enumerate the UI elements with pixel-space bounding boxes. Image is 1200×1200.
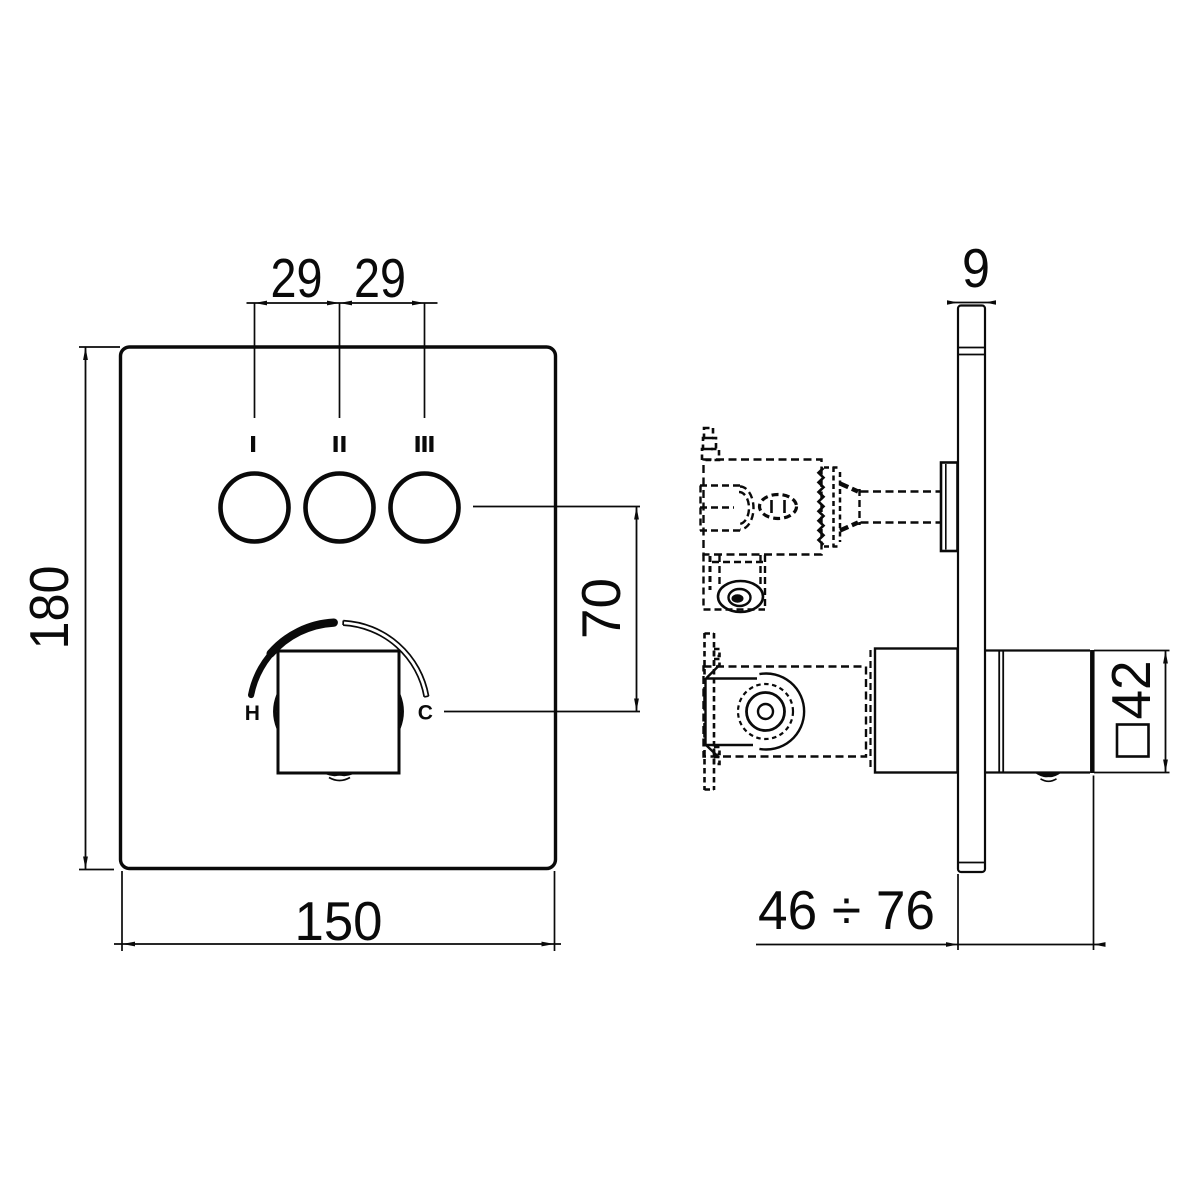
numeral I xyxy=(251,436,255,452)
wall plate side profile xyxy=(958,306,985,873)
dimension 29-29: extension lines xyxy=(254,303,256,418)
dimension 70: leader from knob C xyxy=(444,711,640,713)
upper supply pipe stub (dashed) xyxy=(702,428,719,460)
lower housing box (solid) xyxy=(875,649,958,773)
dimension 180: extension lines xyxy=(79,346,120,348)
dimension 180: arrows xyxy=(83,347,88,360)
lower cartridge nut circle xyxy=(747,693,785,731)
lower cartridge outer circle xyxy=(759,674,804,750)
temperature knob side (right of plate) xyxy=(986,650,1093,773)
wall plate seam lines xyxy=(958,347,985,349)
wall line (dashed) xyxy=(869,650,871,771)
lower cartridge dashed circle xyxy=(738,684,793,739)
dimension 70: arrows xyxy=(634,507,639,520)
cold arc (thin double right) xyxy=(343,621,428,697)
svg-text:H: H xyxy=(245,702,260,725)
hot arc (thick left) xyxy=(251,623,334,695)
dimension 70: leader from circle 3 xyxy=(473,506,640,508)
dimension 42: extension lines xyxy=(1094,650,1170,652)
numeral III xyxy=(416,436,420,452)
knob square xyxy=(278,651,399,773)
svg-text:9: 9 xyxy=(962,237,990,299)
svg-text:29: 29 xyxy=(271,247,323,309)
dimension 150: dim line xyxy=(114,943,561,945)
dimension square symbol xyxy=(1117,725,1149,757)
numeral II xyxy=(334,436,338,452)
svg-text:150: 150 xyxy=(295,890,383,952)
dimension 150: extension lines xyxy=(121,871,123,951)
svg-text:180: 180 xyxy=(18,566,80,650)
upper socket block (solid) xyxy=(941,463,958,552)
button circle 2 xyxy=(306,474,374,542)
svg-text:70: 70 xyxy=(570,578,632,639)
upper thread band (dashed zigzag) xyxy=(819,468,824,545)
knob bottom notch (side) xyxy=(1034,772,1063,778)
lower cartridge center circle xyxy=(758,704,773,719)
upper cone neck (dashed) xyxy=(840,484,858,531)
knob left side bump xyxy=(275,695,278,728)
dimension 46-76: arrows xyxy=(946,942,958,947)
upper cartridge (dashed) xyxy=(700,486,754,531)
svg-text:46 ÷ 76: 46 ÷ 76 xyxy=(758,879,935,941)
button circle 1 xyxy=(221,474,289,542)
dimension 29-29: dim line xyxy=(247,302,438,304)
lower supply pipe stub (dashed) xyxy=(705,633,720,790)
button circle 3 xyxy=(391,474,459,542)
svg-text:C: C xyxy=(418,702,433,725)
dimension 42: arrows xyxy=(1163,651,1168,664)
dimension 46-76: dim line xyxy=(756,944,1105,946)
svg-text:29: 29 xyxy=(354,247,406,309)
dimension 9: arrows xyxy=(947,300,958,305)
dimension 9: dim line xyxy=(949,302,993,304)
dimension 42: dim line xyxy=(1165,651,1167,773)
svg-text:42: 42 xyxy=(1100,661,1162,720)
upper screw oval xyxy=(760,495,797,519)
dimension 29-29: arrows xyxy=(255,301,268,306)
knob bottom notch xyxy=(320,772,360,777)
upper valve body (dashed) xyxy=(704,460,822,555)
dimension 46-76: extension lines xyxy=(957,874,959,950)
lower bracket (solid) xyxy=(706,666,758,758)
dimension 150: arrows xyxy=(122,942,135,947)
dimension 180: dim line xyxy=(85,347,87,870)
upper spindle stem (dashed) xyxy=(861,492,942,523)
lower valve body (dashed) xyxy=(704,667,867,757)
dimension 70: dim line xyxy=(636,507,638,712)
upper outlet port ellipses xyxy=(718,581,763,612)
knob right side bump xyxy=(399,695,402,728)
upper outlet elbow (dashed) xyxy=(704,555,766,610)
front plate xyxy=(121,347,556,869)
